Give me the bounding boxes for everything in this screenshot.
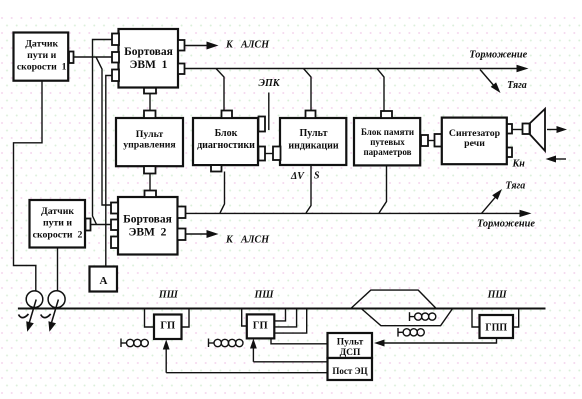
wire: control panel bottom to EVM2 top [149, 174, 151, 191]
svg-text:путевых: путевых [370, 137, 405, 147]
tab: synth left [435, 134, 442, 147]
arrow: GPP to DSP panel [374, 338, 497, 347]
svg-text:S: S [314, 171, 320, 182]
wire: memory to synth [428, 140, 435, 142]
svg-text:ПШ: ПШ [487, 289, 508, 300]
wire: memory unit down to bus2 [379, 165, 387, 213]
wire L1: EVM1 tab1 left, down to sensor2 wire [93, 40, 113, 225]
box: indication panel [280, 118, 346, 165]
svg-text:Тяга: Тяга [507, 80, 527, 91]
speaker horn [530, 109, 545, 151]
coil 4 [398, 328, 424, 337]
wire: drop to memory unit top tab [377, 69, 384, 112]
svg-text:Пульт: Пульт [337, 338, 364, 348]
arrow: K ALSN lower [186, 230, 219, 238]
tabs: EVM1 right [178, 40, 185, 74]
bus: braking (bottom) [186, 210, 532, 217]
arrow: speaker out [547, 126, 567, 133]
tab: memory right [421, 135, 428, 146]
tab: indication top [306, 111, 316, 119]
trapezoid: loop below rail [361, 309, 452, 326]
wire L2: from sensor1 wire down to EVM2 tab1 [96, 57, 111, 205]
tab: control bottom [144, 166, 156, 173]
box: sensor 2 [30, 200, 86, 248]
svg-text:диагностики: диагностики [197, 140, 255, 151]
arrow: Tyaga bottom [482, 189, 503, 213]
rail line [18, 308, 546, 310]
box: GP1 [154, 315, 182, 340]
tab: control top [144, 111, 156, 119]
svg-text:Блок: Блок [215, 128, 238, 139]
arrow: wheel1 pickup [19, 300, 37, 332]
wheel 1 [26, 291, 43, 308]
svg-text:пути и: пути и [43, 217, 72, 228]
box: EVM 2 [118, 197, 178, 255]
svg-text:ГП: ГП [160, 321, 175, 332]
wire: EVM1 bottom to control panel [149, 94, 151, 111]
wire: indication dV/S down to bus2 [306, 165, 311, 213]
box: control panel [116, 118, 183, 166]
box: DSP panel [328, 333, 373, 358]
svg-text:Датчик: Датчик [41, 206, 74, 217]
wire L3: EVM1 tab3 down to box A [106, 76, 112, 267]
svg-text:Блок памяти: Блок памяти [361, 127, 414, 137]
tab: sensor2 right [86, 219, 91, 231]
wire: EPK line [268, 93, 270, 131]
bracket: GP2 left [242, 309, 247, 327]
svg-text:Кн: Кн [512, 159, 526, 170]
box: speech synthesizer [442, 118, 507, 165]
wire: sensor1 down to wheel1 [14, 81, 43, 292]
svg-text:ПШ: ПШ [158, 289, 179, 300]
svg-text:управления: управления [123, 139, 176, 150]
bracket: GPP left [472, 309, 480, 328]
box: GP2 [247, 314, 274, 338]
wire: sensor1 to EVM1 middle tab [74, 56, 113, 58]
svg-text:Торможение: Торможение [477, 218, 535, 229]
arrow: K ALSN upper [185, 42, 219, 50]
svg-text:КАЛСН: КАЛСН [225, 235, 270, 246]
speaker driver box [523, 124, 530, 135]
tabs: EVM2 right [178, 207, 186, 241]
svg-text:ЭВМ 1: ЭВМ 1 [130, 59, 168, 71]
tabs: synth right [507, 124, 512, 157]
svg-text:ДСП: ДСП [340, 348, 361, 358]
svg-text:ГПП: ГПП [485, 322, 507, 333]
arrow: speaker in [546, 156, 567, 163]
svg-text:ЭПК: ЭПК [259, 78, 281, 89]
svg-text:Торможение: Торможение [469, 50, 527, 61]
wire: sensor2 down to wheel2 [57, 248, 59, 292]
svg-text:ГП: ГП [253, 321, 268, 332]
tab: sensor1 right [69, 52, 74, 64]
wire: sensor2 to EVM2 middle tab [91, 224, 112, 226]
wire: synth to speaker driver [512, 129, 523, 131]
wire: GP2 bottom corner to DSP panel [271, 338, 328, 343]
wires: GP2 right to rail [274, 309, 307, 334]
bracket: GP1 right [182, 309, 190, 328]
bus: braking (top) [185, 65, 529, 72]
arrow: into GP2 from DSP [250, 339, 328, 362]
coil 1 [121, 339, 148, 348]
arrow: into GP1 from post EC [163, 340, 328, 373]
svg-text:Пульт: Пульт [136, 129, 164, 140]
bracket: GPP right [513, 309, 519, 328]
tabs: diag right [259, 117, 266, 161]
svg-text:Пульт: Пульт [300, 128, 328, 139]
svg-text:ЭВМ 2: ЭВМ 2 [129, 227, 167, 239]
wire: diag unit down to bus2 [220, 172, 225, 214]
box: track memory unit [354, 118, 420, 165]
wire: drop to indication panel top tab [304, 69, 312, 111]
svg-text:скорости 2: скорости 2 [33, 229, 83, 240]
svg-text:Датчик: Датчик [25, 39, 58, 50]
svg-text:Пост ЭЦ: Пост ЭЦ [332, 366, 367, 376]
arrow: Tyaga top [480, 70, 501, 94]
tab: diag bottom [211, 165, 222, 171]
box: sensor 1 [14, 33, 69, 81]
svg-text:ΔV: ΔV [290, 171, 305, 182]
wire: diag to indication [265, 153, 273, 155]
box: post EC [328, 358, 373, 380]
svg-text:пути и: пути и [27, 50, 56, 61]
tabs: EVM2 left [111, 203, 118, 249]
svg-text:Бортовая: Бортовая [124, 46, 173, 58]
tab: memory top [381, 111, 392, 118]
coil 2 [209, 339, 244, 348]
bracket: GP1 left [145, 309, 155, 328]
coil 3 [410, 312, 436, 321]
svg-text:параметров: параметров [364, 147, 412, 157]
box: A [90, 267, 118, 292]
tab: EVM2 top [145, 191, 157, 198]
svg-text:А: А [100, 275, 108, 287]
tabs: EVM1 left [112, 34, 119, 82]
svg-text:речи: речи [464, 138, 485, 149]
tab: indication left [273, 147, 281, 161]
svg-text:КАЛСН: КАЛСН [225, 39, 270, 50]
box: GPP [480, 315, 514, 338]
trapezoid: loop above rail [351, 290, 436, 308]
svg-text:скорости 1: скорости 1 [17, 61, 67, 72]
svg-text:Тяга: Тяга [506, 181, 526, 192]
box: diagnostics unit [193, 118, 258, 165]
arrow: wheel2 pickup [41, 300, 59, 332]
svg-text:ПШ: ПШ [254, 289, 275, 300]
wheel 2 [48, 291, 65, 308]
tab: diag top [222, 111, 233, 119]
wire: drop to diag unit top tab [216, 69, 224, 111]
svg-text:Бортовая: Бортовая [123, 214, 172, 226]
tab: EVM1 bottom [144, 88, 156, 94]
box: EVM 1 [119, 29, 179, 88]
svg-text:индикации: индикации [288, 140, 338, 151]
